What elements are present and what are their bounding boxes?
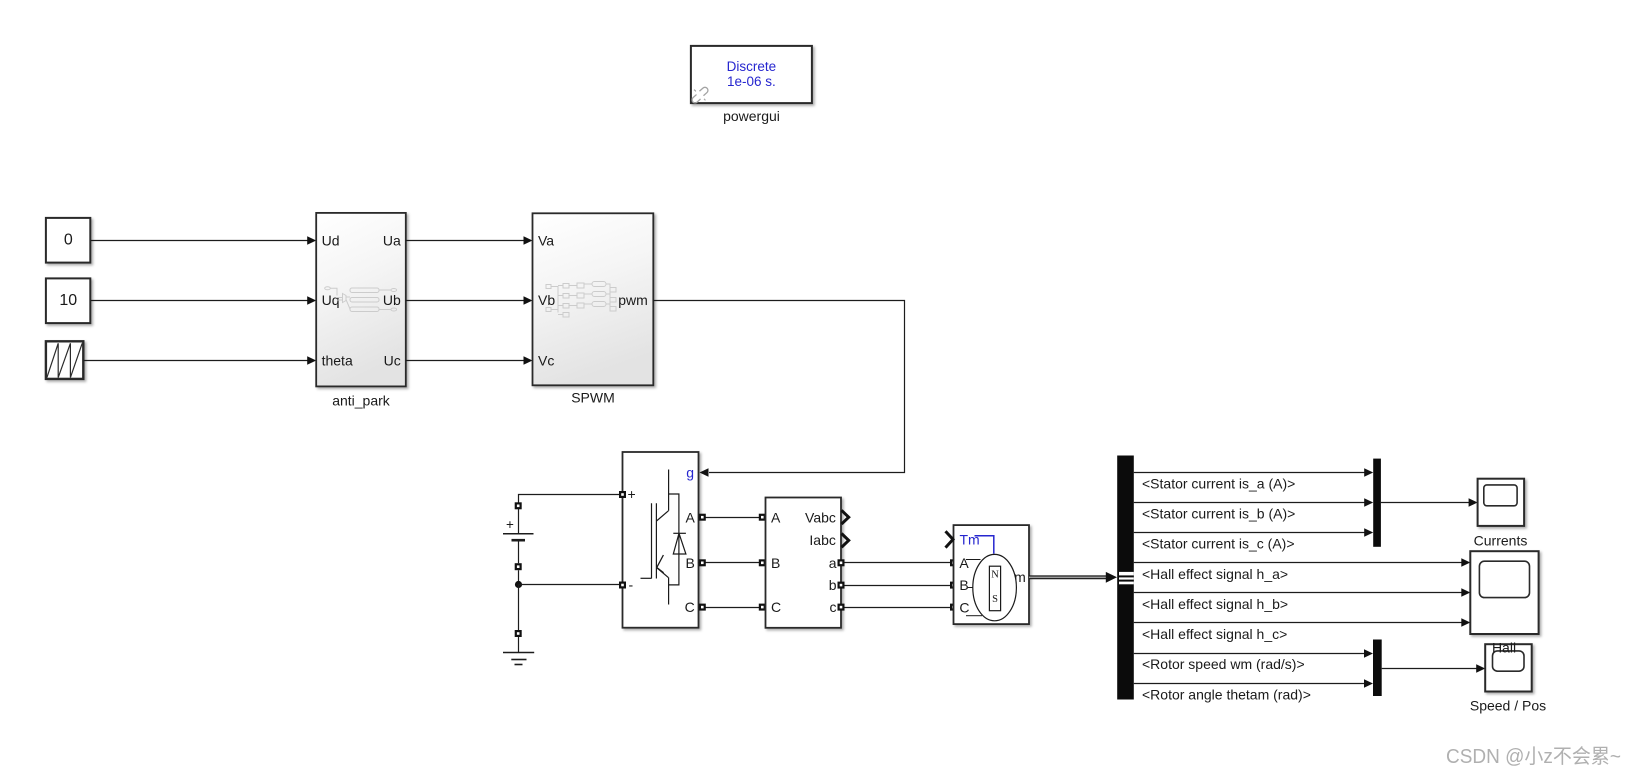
wire mux to Currents scope [1381,502,1469,504]
wire stator current is_c [1134,532,1365,534]
svg-text:Uc: Uc [384,353,401,369]
svg-text:<Rotor speed wm (rad/s)>: <Rotor speed wm (rad/s)> [1142,656,1305,672]
block three-phase V-I measurement [766,498,842,628]
wire hall effect h_b [1134,592,1462,594]
svg-text:<Stator current is_b (A)>: <Stator current is_b (A)> [1142,506,1295,522]
svg-text:pwm: pwm [618,292,648,308]
DC source top wire to + [519,495,623,506]
magnet bar N S [989,566,1000,611]
svg-text:powergui: powergui [723,108,780,124]
svg-text:<Stator current is_c (A)>: <Stator current is_c (A)> [1142,536,1295,552]
port squares meas outputs a b c [838,559,845,610]
wire junction to ground [518,585,520,631]
constant C0 value 0 [46,218,90,263]
bus wire m to bus selector [1029,572,1117,583]
svg-text:-: - [629,577,634,593]
svg-text:A: A [685,509,695,525]
svg-text:g: g [686,464,694,480]
svg-text:A: A [771,509,781,525]
wire meas b to PMSM B [841,585,954,587]
wire battery to junction [518,570,520,585]
port squares meas inputs A B C [759,514,766,611]
svg-text:CSDN @小z不会累~: CSDN @小z不会累~ [1446,745,1621,768]
PMSM rotor ellipse [973,554,1017,620]
svg-text:1e-06 s.: 1e-06 s. [727,74,776,89]
svg-text:B: B [959,577,968,593]
anti_park thumbnail art [325,287,397,312]
svg-text:Ud: Ud [322,233,340,249]
unconnected output chevron Iabc [842,534,849,548]
scope Currents [1478,479,1525,526]
port square ground [515,630,522,637]
svg-text:Discrete: Discrete [727,59,777,74]
svg-text:B: B [685,555,694,571]
svg-text:Vc: Vc [538,353,554,369]
svg-text:B: B [771,555,780,571]
subsystem SPWM [533,213,654,385]
svg-text:C: C [959,599,969,615]
svg-text:<Hall effect signal h_c>: <Hall effect signal h_c> [1142,626,1287,642]
port squares inverter outputs A B C [699,514,706,611]
wire hall effect h_c [1134,622,1462,624]
wire sawtooth to theta [83,360,307,362]
Tm blue wire into rotor [975,536,994,554]
mux currents [1373,459,1381,547]
svg-text:theta: theta [322,353,353,369]
port square inverter + [619,491,626,498]
broken library link icon [691,86,709,104]
svg-text:<Rotor angle thetam (rad)>: <Rotor angle thetam (rad)> [1142,686,1311,702]
wire meas c to PMSM C [841,607,954,609]
svg-text:+: + [506,517,514,532]
svg-text:Vb: Vb [538,292,555,308]
block IGBT inverter bridge [623,452,699,628]
svg-text:C: C [685,599,695,615]
svg-text:Va: Va [538,233,554,249]
wire rotor speed wm [1134,653,1365,655]
subsystem anti_park [316,213,406,387]
svg-text:<Stator current is_a (A)>: <Stator current is_a (A)> [1142,475,1295,491]
svg-text:Tm: Tm [960,532,980,548]
constant C10 value 10 [46,278,90,323]
wire mux to Speed scope [1382,668,1477,670]
wire 0 to Ud [91,240,308,242]
svg-text:<Hall effect signal h_b>: <Hall effect signal h_b> [1142,596,1288,612]
wire Uc to Vc [406,360,524,362]
wire pwm to g (feedback) [653,301,904,473]
svg-text:b: b [829,577,837,593]
DC voltage source battery [503,509,534,563]
svg-text:Ua: Ua [383,233,401,249]
block PMSM motor [954,525,1030,624]
svg-text:Hall: Hall [1492,639,1516,655]
pmsm stator connector lines [966,560,982,616]
scope Hall [1470,551,1538,634]
wire 10 to Uq [91,300,308,302]
ground symbol [503,637,534,665]
svg-text:0: 0 [64,232,73,249]
port square battery - [515,563,522,570]
scope Speed / Pos [1485,644,1532,691]
wire meas a to PMSM A [841,562,954,564]
svg-text:10: 10 [59,292,77,309]
svg-text:anti_park: anti_park [332,392,391,408]
svg-text:c: c [830,599,837,615]
wire inverter B to meas B [699,562,766,564]
igbt transistor icon [641,470,679,605]
wire inverter C to meas C [699,607,766,609]
svg-text:+: + [628,486,636,502]
block powergui [691,46,812,103]
port square battery + [515,502,522,509]
unconnected output chevron Vabc [842,510,849,524]
wire rotor angle thetam [1134,683,1365,685]
svg-text:N: N [991,570,999,581]
port square inverter - [619,582,626,589]
wire junction to inverter - [519,584,623,586]
wire inverter A to meas A [699,517,766,519]
node junction dot [515,581,522,588]
port squares PMSM inputs A B C [950,559,957,610]
svg-text:Vabc: Vabc [805,509,836,525]
bus selector [1117,456,1134,700]
mux speed/pos [1373,640,1382,697]
svg-text:A: A [959,555,969,571]
svg-text:SPWM: SPWM [571,390,615,406]
antiparallel diode [673,533,686,554]
igbt emitter arrow [657,555,664,573]
svg-text:Speed / Pos: Speed / Pos [1470,697,1546,713]
unconnected input chevron Tm [946,531,954,547]
wire hall effect h_a [1134,562,1462,564]
wire stator current is_a [1134,472,1365,474]
svg-text:S: S [992,594,998,605]
svg-text:a: a [829,555,837,571]
svg-text:Iabc: Iabc [809,532,835,548]
svg-text:C: C [771,599,781,615]
SPWM thumbnail art [546,282,616,318]
svg-text:<Hall effect signal h_a>: <Hall effect signal h_a> [1142,566,1288,582]
wire Ub to Vb [406,300,524,302]
svg-text:Ub: Ub [383,292,401,308]
wire Ua to Va [406,240,524,242]
repeating sequence sawtooth source [46,341,83,379]
svg-text:Currents: Currents [1474,532,1528,548]
wire stator current is_b [1134,502,1365,504]
